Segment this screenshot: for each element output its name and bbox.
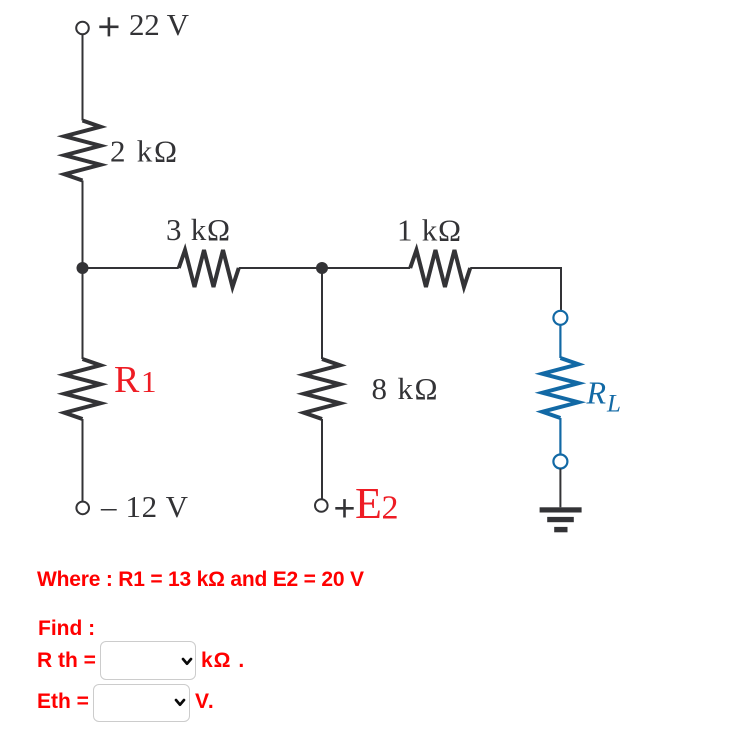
text kOhm xyxy=(201,653,245,668)
wire node B to 1k xyxy=(322,267,410,269)
svg-text:3 kΩ: 3 kΩ xyxy=(166,212,230,247)
svg-text:8 kΩ: 8 kΩ xyxy=(372,371,438,406)
terminal RL bottom xyxy=(553,455,567,469)
resistor 3k xyxy=(179,250,239,287)
wire 2k to node A xyxy=(82,181,84,269)
text Rth= xyxy=(37,653,96,668)
terminal +22V xyxy=(76,22,89,35)
wire blue bottom xyxy=(559,418,561,455)
text Where xyxy=(37,572,364,587)
wire 3k to node B xyxy=(239,267,322,269)
select Eth xyxy=(93,684,190,722)
text Find xyxy=(38,621,95,636)
plus sign of +22V xyxy=(99,17,118,36)
svg-text:R: R xyxy=(586,375,607,411)
svg-text:2 kΩ: 2 kΩ xyxy=(110,134,177,169)
resistor 8k xyxy=(304,359,340,419)
svg-text:1: 1 xyxy=(141,364,157,399)
wire blue top xyxy=(559,325,561,358)
wire node B down to 8k xyxy=(321,268,323,359)
wire top terminal to 2k xyxy=(82,35,84,121)
select Rth xyxy=(100,641,196,680)
wire 8k to terminal E2 xyxy=(321,419,323,499)
terminal E2 xyxy=(315,499,328,512)
resistor 2k xyxy=(65,121,101,181)
svg-text:22 V: 22 V xyxy=(129,7,190,42)
text V. xyxy=(195,694,215,709)
plus sign E2 xyxy=(335,499,353,517)
wire 1k to corner and down to RL terminal xyxy=(470,268,561,311)
resistor R1 xyxy=(65,359,101,419)
svg-text:2: 2 xyxy=(382,489,399,526)
chevron Eth xyxy=(174,698,187,709)
wire node A down to R1 xyxy=(82,268,84,359)
ground xyxy=(540,507,582,532)
terminal -12V xyxy=(76,502,89,515)
wire RL bottom to ground xyxy=(559,469,561,508)
svg-text:L: L xyxy=(606,391,621,418)
resistor RL xyxy=(542,358,578,418)
node B xyxy=(316,262,328,274)
text Eth= xyxy=(37,694,89,709)
node A xyxy=(77,262,89,274)
svg-text:R: R xyxy=(114,359,140,401)
svg-text:E: E xyxy=(355,479,382,528)
chevron Rth xyxy=(181,657,194,668)
wire node A to 3k xyxy=(83,267,179,269)
svg-text:1 kΩ: 1 kΩ xyxy=(397,213,461,248)
resistor 1k xyxy=(410,250,470,287)
wire R1 to terminal -12V xyxy=(82,419,84,502)
terminal RL top xyxy=(553,311,567,325)
svg-text:– 12 V: – 12 V xyxy=(100,489,189,524)
